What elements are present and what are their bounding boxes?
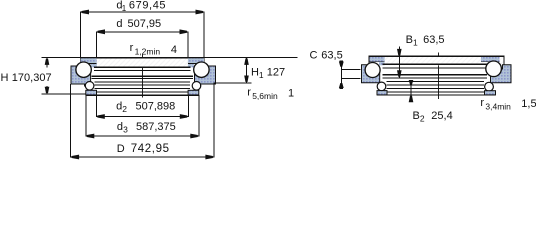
svg-text:507,95: 507,95 [128,18,162,30]
svg-text:r: r [480,97,484,109]
centerline right [437,53,439,100]
svg-text:D: D [117,143,125,155]
svg-text:B: B [413,110,420,122]
svg-text:C: C [310,50,318,62]
dimension d2 [96,95,188,116]
seating washer bottom left [86,90,97,95]
svg-text:1: 1 [288,88,294,100]
housing washer block right (blue) [195,66,216,84]
dimension d3 [86,95,199,136]
dimension D [71,84,214,157]
svg-text:63,5: 63,5 [423,34,444,46]
seating washers right fig [377,91,387,95]
svg-text:63,5: 63,5 [321,50,342,62]
svg-text:H: H [1,72,9,84]
bottom edge line [86,94,199,96]
ball large left (right fig) [365,63,380,78]
washer section left (blue) [81,58,97,63]
svg-text:1,2min: 1,2min [135,47,161,57]
shaft washer strip [81,58,205,68]
housing block left (right fig) [362,65,380,83]
svg-text:B: B [406,34,413,46]
svg-text:d: d [116,18,122,30]
svg-text:r: r [247,87,251,99]
block step edge right [199,84,201,87]
ball small left (right fig) [377,82,386,91]
svg-text:H: H [251,67,259,79]
ball small left [85,82,94,91]
middle raceway lines [92,67,194,92]
svg-text:587,375: 587,375 [136,121,176,133]
dimension H1 [204,57,297,59]
shaft washer strip right fig [369,56,504,65]
ball large left [76,62,91,77]
svg-text:679,45: 679,45 [129,0,166,12]
svg-text:1: 1 [122,4,127,13]
svg-text:2: 2 [420,114,425,124]
block step edge left [84,84,86,87]
housing block right (right fig) [491,65,512,83]
svg-text:1,5: 1,5 [521,98,536,110]
dimension H [42,57,81,59]
svg-text:4: 4 [171,44,177,56]
ball small right [192,82,201,91]
svg-text:742,95: 742,95 [131,143,170,155]
middle raceway lines right fig [383,64,488,92]
dimension d1 line [81,12,205,58]
ball small right (right fig) [485,82,494,91]
svg-text:1: 1 [259,70,264,80]
d1 arrows [82,10,204,15]
dimension C [340,62,342,89]
ball large right [194,62,209,77]
seating washer bottom right [188,90,199,95]
svg-text:507,898: 507,898 [136,101,176,113]
dimension d line [97,32,189,58]
svg-text:3,4min: 3,4min [485,102,511,112]
washer section right (blue) [188,58,204,63]
dimension B1 [398,47,400,78]
svg-text:d: d [116,101,122,113]
ball large right (right fig) [486,61,502,77]
strip top edge [80,57,204,59]
svg-text:d: d [117,121,123,133]
strip right edge [203,58,205,68]
svg-text:170,307: 170,307 [12,72,52,84]
housing washer block left (blue) [71,66,91,84]
svg-text:3: 3 [123,124,128,134]
svg-text:r: r [130,42,134,54]
strip left edge [80,58,82,68]
svg-text:5,6min: 5,6min [252,91,278,101]
svg-text:2: 2 [122,104,127,114]
washer sections right fig (blue) [370,57,385,62]
d arrows [98,29,188,34]
svg-text:127: 127 [267,67,285,79]
svg-text:1: 1 [413,38,418,48]
svg-text:25,4: 25,4 [431,110,452,122]
centerline [141,55,143,98]
dimension B2 [410,81,412,102]
